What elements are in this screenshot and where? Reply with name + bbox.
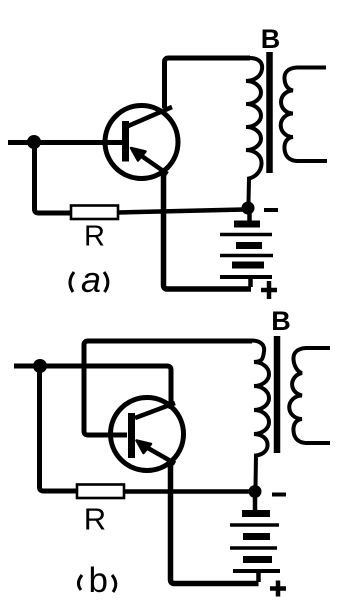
battery plate 5 thick (a)	[232, 262, 264, 269]
battery plate 4 thin (b)	[230, 546, 277, 550]
battery stub from junction (b)	[253, 495, 258, 510]
resistor R (a) body	[71, 206, 118, 220]
wire: input lead to base (a)	[8, 140, 122, 145]
resistor R (b) body	[77, 485, 124, 499]
battery BT (b)	[230, 495, 280, 582]
battery plate 2 thin (a)	[220, 233, 272, 237]
transistor Q2 collector stroke (b)	[135, 403, 175, 418]
battery plate 3 thick (a)	[236, 242, 262, 249]
transformer B (b) secondary winding	[289, 348, 330, 443]
battery bottom stub (a)	[248, 277, 253, 287]
transistor Q1 collector stroke (a)	[127, 107, 172, 127]
svg-text:R: R	[84, 502, 106, 537]
transformer B (a) primary winding	[246, 58, 262, 203]
transformer B (b) core	[274, 336, 281, 453]
wire: junction down to resistor (a)	[35, 145, 73, 213]
label (b)	[78, 561, 115, 600]
transistor Q1 emitter stroke (a)	[133, 150, 168, 174]
wire: input lead across top (b)	[14, 366, 171, 409]
transistor Q2 emitter stroke (b)	[139, 443, 175, 464]
battery plate 3 thick (b)	[243, 533, 270, 540]
label plus (a)	[261, 281, 277, 299]
label (a)	[70, 259, 108, 300]
wire: emitter down and right to battery bottom (a)	[164, 172, 252, 289]
battery plate 1 thick (a)	[234, 221, 260, 228]
svg-text:B: B	[261, 24, 281, 54]
node: battery top junction dot (b)	[249, 485, 262, 498]
battery plate 1 thick (b)	[242, 510, 270, 517]
battery plate 6 thin (a)	[220, 275, 272, 279]
svg-text:R: R	[84, 221, 105, 253]
transistor Q1 emitter arrowhead (a)	[131, 148, 146, 161]
label minus (a)	[264, 208, 278, 212]
svg-text:a: a	[81, 259, 101, 300]
wire: resistor to battery top junction (a)	[118, 210, 244, 213]
label plus (b)	[270, 581, 286, 597]
wire: emitter down and right to battery bottom (b)	[171, 461, 259, 584]
transformer B (a) core	[266, 52, 273, 173]
transformer B (a) secondary winding	[281, 68, 327, 162]
battery bottom stub (b)	[256, 571, 261, 582]
transformer B (b) primary winding	[250, 340, 269, 487]
wire: collector up and over to transformer primary (a)	[165, 58, 251, 108]
label minus (b)	[272, 493, 286, 497]
svg-text:B: B	[271, 306, 291, 336]
battery stub from junction (a)	[247, 212, 252, 221]
wire: junction down to resistor (b)	[40, 369, 79, 491]
transistor Q1 base bar (a)	[122, 121, 129, 162]
node: battery top junction dot (a)	[242, 202, 255, 215]
battery plate 6 thin (b)	[233, 569, 280, 573]
battery BT (a)	[220, 212, 273, 287]
transistor Q2 circle (b)	[111, 398, 184, 471]
svg-text:b: b	[89, 561, 108, 600]
wire: base left, up and over to transformer primary (b)	[84, 341, 252, 435]
node: input junction dot (a)	[27, 135, 41, 149]
battery plate 4 thin (a)	[220, 254, 273, 258]
transistor Q2 emitter arrowhead (b)	[137, 441, 152, 454]
wire: resistor to battery top junction (b)	[124, 489, 251, 494]
transistor Q1 circle (a)	[105, 106, 178, 179]
battery plate 2 thin (b)	[230, 523, 279, 527]
battery plate 5 thick (b)	[243, 556, 272, 563]
transistor Q2 base bar (b)	[128, 413, 135, 458]
node: input junction dot (b)	[33, 359, 47, 373]
